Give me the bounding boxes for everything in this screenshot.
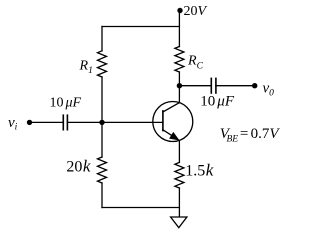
svg-text:=: = xyxy=(240,126,249,142)
wire 20k bottom to ground rail xyxy=(101,183,103,208)
svg-text:vi: vi xyxy=(8,115,18,133)
wire supply stub 20V to RC top xyxy=(178,11,180,47)
wire top horizontal rail xyxy=(102,26,179,28)
resistor RC xyxy=(175,47,184,73)
wire RC bottom to collector node xyxy=(178,72,180,86)
wire input capacitor to base node xyxy=(67,121,102,123)
resistor RE 1.5k xyxy=(175,162,184,188)
svg-text:10μF: 10μF xyxy=(50,96,82,111)
wire 1.5k bottom to ground xyxy=(178,188,180,217)
capacitor C1 10uF input xyxy=(62,115,64,130)
svg-text:BE: BE xyxy=(227,134,239,144)
ground symbol xyxy=(171,217,187,228)
capacitor C2 10uF output xyxy=(210,78,212,93)
wire base node to transistor base xyxy=(102,121,163,123)
svg-text:v0: v0 xyxy=(263,81,275,99)
wire vi terminal to input capacitor xyxy=(30,121,64,123)
transistor Q1 circle xyxy=(153,102,193,142)
node collector junction dot xyxy=(177,83,182,88)
svg-text:1.5k: 1.5k xyxy=(185,161,214,180)
wire base node down to 20k xyxy=(101,122,103,157)
wire output capacitor to vo terminal xyxy=(216,85,255,87)
wire collector node to output capacitor xyxy=(179,85,211,87)
svg-text:R1: R1 xyxy=(79,59,93,77)
node vi terminal dot xyxy=(27,120,32,125)
svg-text:10μF: 10μF xyxy=(200,94,235,110)
wire R1 bottom to base node xyxy=(101,77,103,122)
wire top rail down to R1 xyxy=(101,27,103,51)
label VBE = 0.7V xyxy=(220,126,281,144)
transistor Q1 collector lead xyxy=(163,103,180,112)
wire bottom ground rail xyxy=(102,207,179,209)
resistor R1 xyxy=(98,51,107,77)
svg-text:RC: RC xyxy=(187,54,204,72)
node +20V supply dot xyxy=(177,8,182,13)
transistor Q1 emitter arrowhead xyxy=(169,132,180,141)
transistor Q1 emitter lead xyxy=(163,130,176,138)
wire emitter to 1.5k xyxy=(178,140,180,162)
node base junction dot xyxy=(99,120,104,125)
resistor R2 20k xyxy=(98,157,107,183)
wire collector node down to transistor xyxy=(178,86,180,103)
svg-text:20V: 20V xyxy=(184,4,208,19)
svg-text:20k: 20k xyxy=(66,157,91,176)
transistor Q1 base bar xyxy=(162,111,164,131)
svg-text:0.7V: 0.7V xyxy=(251,126,281,142)
node vo terminal dot xyxy=(252,83,257,88)
